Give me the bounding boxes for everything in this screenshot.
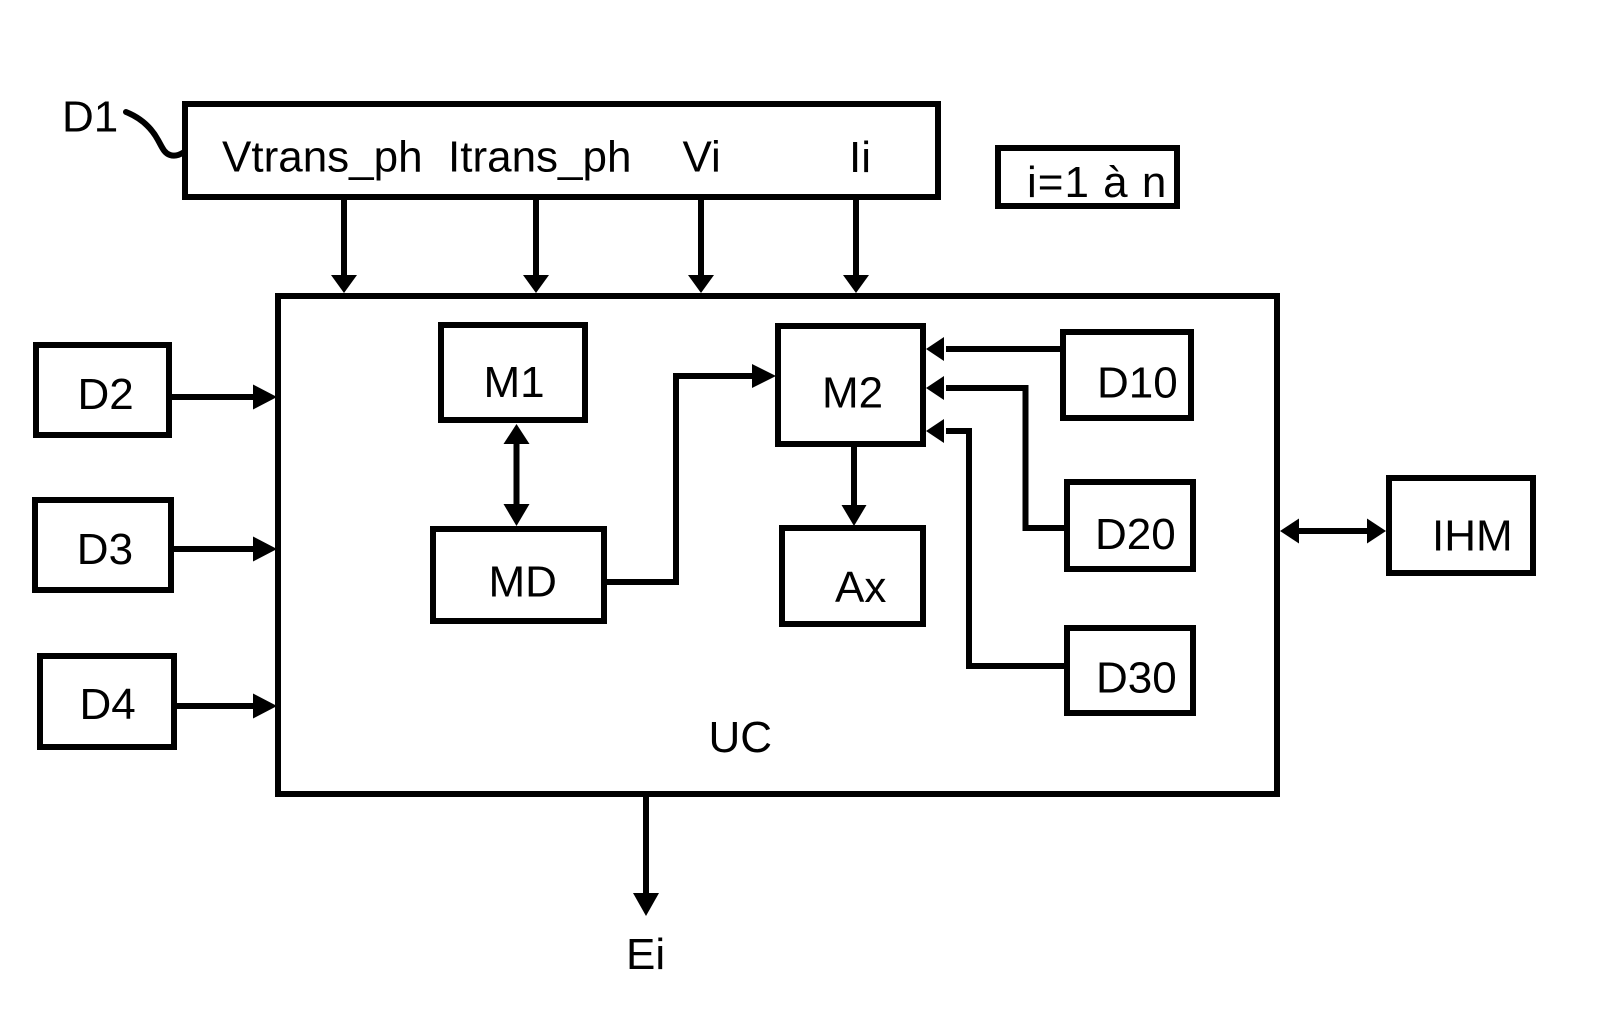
svg-text:Vtrans_ph: Vtrans_ph: [222, 133, 423, 182]
svg-text:Ii: Ii: [849, 133, 871, 182]
svg-text:UC: UC: [709, 713, 773, 762]
svg-text:D1: D1: [62, 93, 118, 142]
svg-text:Vi: Vi: [683, 133, 721, 182]
svg-text:MD: MD: [489, 558, 557, 607]
svg-text:D30: D30: [1096, 654, 1177, 703]
svg-text:D3: D3: [77, 525, 133, 574]
svg-text:D2: D2: [78, 370, 134, 419]
svg-text:IHM: IHM: [1432, 512, 1513, 561]
svg-text:Ax: Ax: [835, 563, 886, 612]
svg-text:M2: M2: [822, 369, 883, 418]
svg-text:Itrans_ph: Itrans_ph: [448, 133, 631, 182]
svg-text:i=1 à n: i=1 à n: [1027, 158, 1167, 207]
svg-text:M1: M1: [484, 358, 545, 407]
svg-text:D20: D20: [1095, 510, 1176, 559]
svg-text:D10: D10: [1097, 359, 1178, 408]
svg-text:Ei: Ei: [626, 930, 665, 979]
svg-text:D4: D4: [80, 680, 136, 729]
